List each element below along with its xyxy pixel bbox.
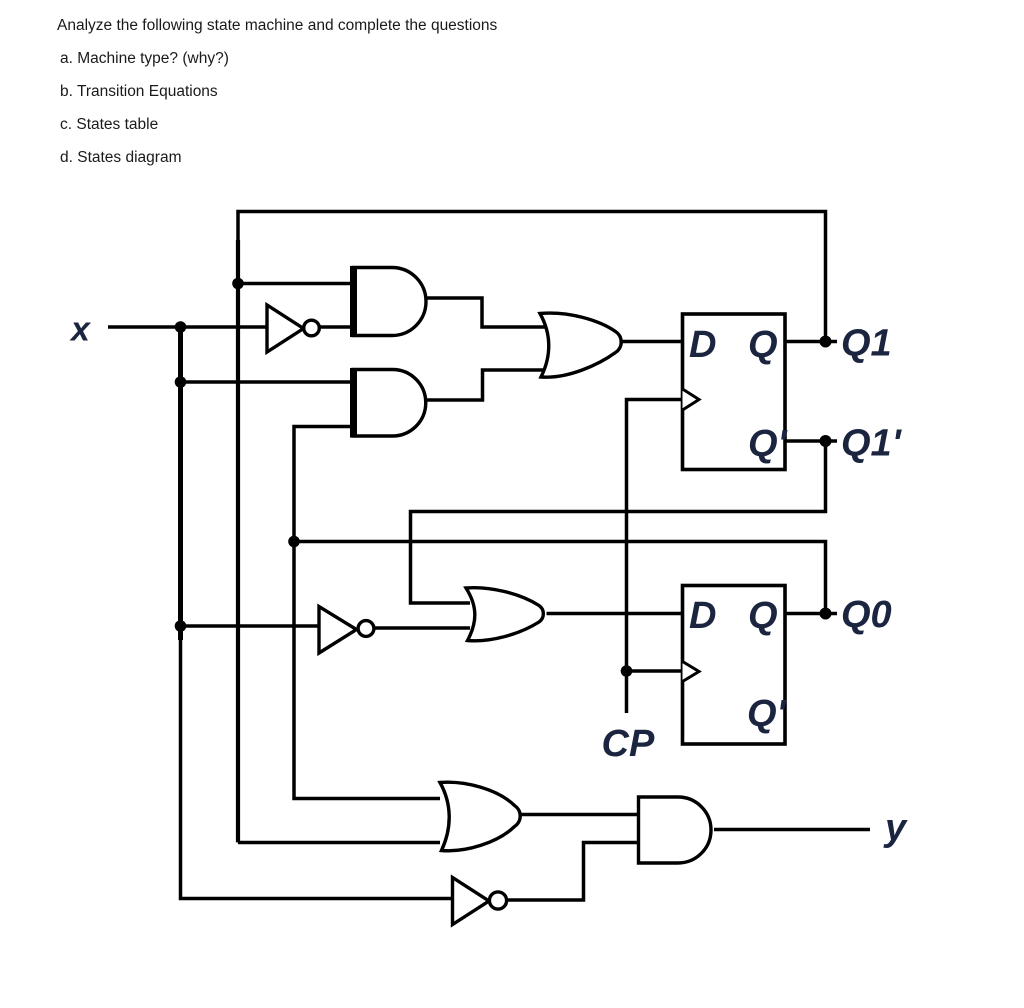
svg-text:y: y [883, 807, 908, 849]
svg-text:D: D [689, 595, 716, 637]
svg-text:D: D [689, 324, 716, 366]
svg-text:Q1': Q1' [841, 423, 903, 465]
svg-text:Q': Q' [747, 693, 788, 735]
svg-text:Q: Q [748, 324, 778, 366]
svg-text:Q': Q' [748, 423, 789, 465]
svg-text:Q0: Q0 [841, 594, 892, 636]
svg-text:Q: Q [748, 595, 778, 637]
svg-text:CP: CP [602, 723, 655, 765]
svg-text:Q1: Q1 [841, 323, 892, 365]
svg-text:x: x [69, 311, 92, 349]
